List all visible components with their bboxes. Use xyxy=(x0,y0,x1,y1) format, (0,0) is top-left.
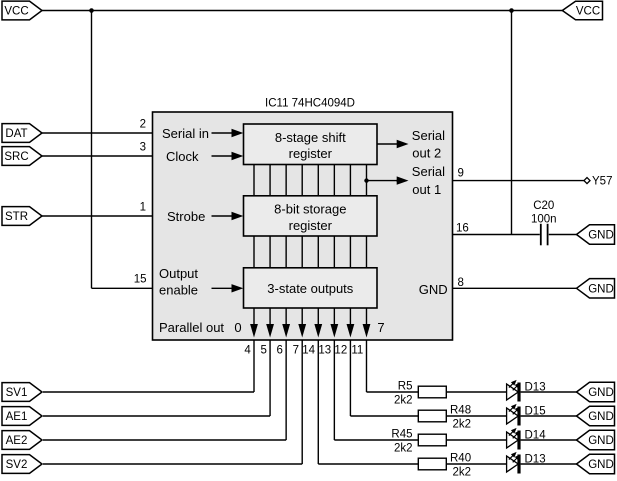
svg-text:Clock: Clock xyxy=(166,149,199,164)
svg-text:AE2: AE2 xyxy=(6,435,28,447)
svg-text:SV2: SV2 xyxy=(6,459,28,471)
svg-text:2k2: 2k2 xyxy=(394,443,413,455)
svg-text:Serial in: Serial in xyxy=(162,126,209,141)
svg-text:GND: GND xyxy=(419,282,448,297)
svg-text:D14: D14 xyxy=(525,429,547,441)
svg-text:12: 12 xyxy=(334,344,347,356)
svg-text:R45: R45 xyxy=(391,429,412,441)
svg-text:out 2: out 2 xyxy=(412,146,441,161)
svg-text:2: 2 xyxy=(140,118,146,130)
svg-text:R5: R5 xyxy=(398,381,413,393)
svg-text:Strobe: Strobe xyxy=(167,209,205,224)
svg-text:VCC: VCC xyxy=(576,6,600,18)
svg-text:7: 7 xyxy=(293,344,299,356)
svg-text:D13: D13 xyxy=(525,381,546,393)
svg-text:Parallel out: Parallel out xyxy=(159,320,224,335)
svg-text:IC11 74HC4094D: IC11 74HC4094D xyxy=(265,98,355,110)
svg-text:register: register xyxy=(289,146,333,161)
svg-text:6: 6 xyxy=(277,344,283,356)
svg-text:15: 15 xyxy=(134,274,147,286)
svg-text:3-state outputs: 3-state outputs xyxy=(267,281,353,296)
svg-text:C20: C20 xyxy=(533,200,554,212)
svg-text:R48: R48 xyxy=(450,405,471,417)
svg-text:GND: GND xyxy=(588,284,614,296)
svg-text:out 1: out 1 xyxy=(412,182,441,197)
svg-text:11: 11 xyxy=(351,344,363,356)
svg-text:GND: GND xyxy=(588,230,614,242)
svg-text:2k2: 2k2 xyxy=(394,395,413,407)
svg-text:SRC: SRC xyxy=(4,151,28,163)
svg-text:STR: STR xyxy=(5,211,28,223)
svg-text:SV1: SV1 xyxy=(6,387,28,399)
svg-text:9: 9 xyxy=(458,167,464,179)
svg-text:D15: D15 xyxy=(525,405,546,417)
svg-text:5: 5 xyxy=(260,344,266,356)
svg-text:GND: GND xyxy=(588,435,614,447)
svg-text:Serial: Serial xyxy=(412,128,445,143)
svg-text:1: 1 xyxy=(140,202,146,214)
svg-text:enable: enable xyxy=(159,283,198,298)
svg-text:VCC: VCC xyxy=(4,6,28,18)
svg-text:16: 16 xyxy=(456,222,469,234)
svg-text:0: 0 xyxy=(234,320,241,335)
svg-text:Serial: Serial xyxy=(412,164,445,179)
svg-text:GND: GND xyxy=(588,459,614,471)
svg-text:14: 14 xyxy=(302,344,315,356)
svg-text:8: 8 xyxy=(458,277,464,289)
svg-text:GND: GND xyxy=(588,411,614,423)
svg-text:Y57: Y57 xyxy=(592,176,612,188)
svg-text:GND: GND xyxy=(588,387,614,399)
svg-text:AE1: AE1 xyxy=(6,411,28,423)
svg-text:100n: 100n xyxy=(531,214,557,226)
svg-text:register: register xyxy=(289,218,333,233)
svg-text:8-stage shift: 8-stage shift xyxy=(275,130,346,145)
svg-text:2k2: 2k2 xyxy=(453,419,472,431)
svg-text:D13: D13 xyxy=(525,453,546,465)
svg-text:4: 4 xyxy=(244,344,251,356)
svg-text:8-bit storage: 8-bit storage xyxy=(274,202,346,217)
svg-text:DAT: DAT xyxy=(5,128,27,140)
svg-text:3: 3 xyxy=(140,141,146,153)
svg-text:13: 13 xyxy=(318,344,331,356)
svg-text:2k2: 2k2 xyxy=(453,467,472,479)
svg-text:Output: Output xyxy=(159,266,198,281)
svg-text:R40: R40 xyxy=(450,453,471,465)
svg-text:7: 7 xyxy=(377,320,384,335)
